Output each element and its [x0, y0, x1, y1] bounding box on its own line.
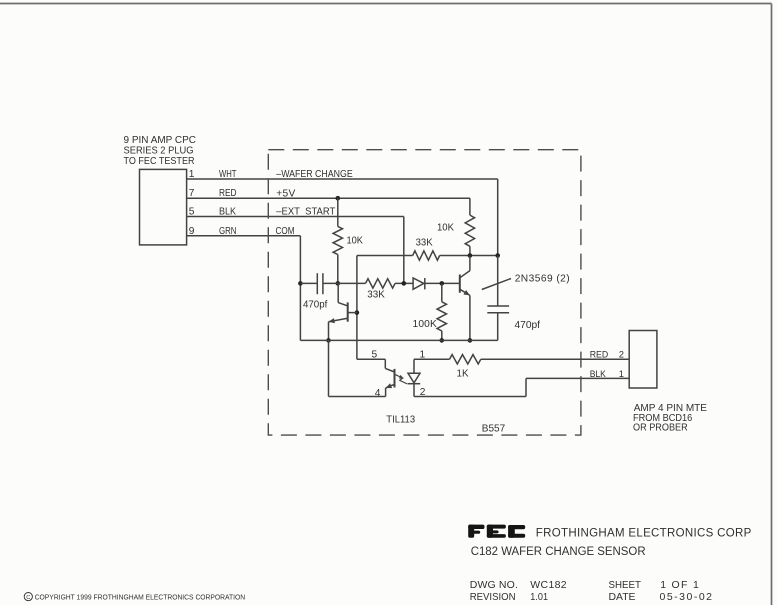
svg-text:1.01: 1.01	[530, 591, 548, 603]
svg-text:SERIES 2 PLUG: SERIES 2 PLUG	[124, 145, 194, 156]
svg-text:BLK: BLK	[219, 207, 236, 218]
svg-text:33K: 33K	[367, 289, 385, 300]
svg-text:470pf: 470pf	[515, 320, 541, 331]
svg-text:05-30-02: 05-30-02	[660, 591, 713, 603]
svg-text:1K: 1K	[457, 369, 469, 380]
svg-text:470pf: 470pf	[303, 300, 327, 311]
svg-text:9: 9	[189, 226, 195, 237]
svg-text:10K: 10K	[347, 236, 364, 247]
svg-text:COM: COM	[276, 226, 295, 237]
svg-text:B557: B557	[482, 423, 506, 434]
svg-text:BLK: BLK	[590, 368, 607, 379]
svg-text:TIL113: TIL113	[386, 414, 415, 425]
svg-text:4: 4	[375, 388, 381, 399]
svg-text:–WAFER CHANGE: –WAFER CHANGE	[276, 169, 353, 180]
svg-text:33K: 33K	[416, 237, 433, 248]
svg-text:1: 1	[619, 368, 624, 379]
svg-text:DATE: DATE	[609, 591, 636, 603]
svg-text:2: 2	[420, 387, 426, 398]
svg-text:5: 5	[372, 350, 378, 361]
svg-text:WHT: WHT	[219, 169, 237, 180]
svg-text:OR PROBER: OR PROBER	[633, 423, 688, 434]
svg-text:9 PIN AMP CPC: 9 PIN AMP CPC	[124, 135, 197, 146]
svg-text:1 OF 1: 1 OF 1	[660, 579, 699, 591]
svg-text:2N3569 (2): 2N3569 (2)	[515, 274, 570, 285]
svg-text:GRN: GRN	[219, 226, 237, 237]
svg-text:5: 5	[189, 207, 195, 218]
svg-text:TO FEC TESTER: TO FEC TESTER	[124, 156, 195, 167]
svg-text:C: C	[26, 595, 30, 601]
svg-text:+5V: +5V	[276, 188, 295, 199]
svg-text:C182 WAFER CHANGE SENSOR: C182 WAFER CHANGE SENSOR	[471, 546, 646, 558]
svg-text:100K: 100K	[413, 319, 438, 330]
svg-text:7: 7	[189, 188, 195, 199]
svg-text:DWG NO.: DWG NO.	[470, 579, 518, 591]
svg-text:REVISION: REVISION	[470, 591, 516, 603]
svg-text:COPYRIGHT 1999 FROTHINGHAM ELE: COPYRIGHT 1999 FROTHINGHAM ELECTRONICS C…	[35, 594, 246, 601]
svg-text:RED: RED	[590, 349, 609, 360]
svg-text:2: 2	[619, 349, 624, 360]
svg-text:RED: RED	[219, 188, 237, 199]
svg-text:FROTHINGHAM ELECTRONICS CORP: FROTHINGHAM ELECTRONICS CORP	[536, 528, 752, 540]
svg-text:SHEET: SHEET	[609, 579, 642, 591]
svg-text:1: 1	[189, 169, 195, 180]
svg-text:–EXT_START: –EXT_START	[276, 207, 335, 218]
svg-text:10K: 10K	[437, 223, 454, 234]
svg-text:WC182: WC182	[530, 579, 566, 591]
